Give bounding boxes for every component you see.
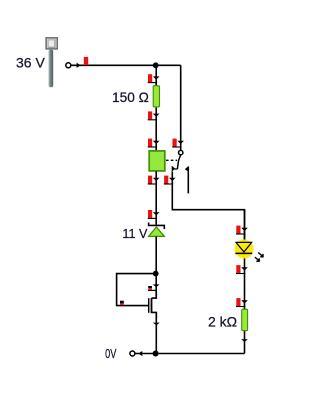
wire: source to bottom rail [155, 312, 157, 353]
resistor R1 150 ohm [153, 86, 159, 107]
resistor R2 2 kOhm [242, 309, 248, 330]
current arrow above zener [148, 210, 160, 219]
relay mechanical link (dashed) [166, 159, 177, 161]
wire bottom rail 0V [135, 353, 244, 355]
current arrow above relay contact [172, 139, 184, 148]
relay coil L1 [149, 151, 165, 171]
relay contact right throw (open) [185, 166, 189, 172]
LED D2 body [235, 242, 252, 253]
wire: zener to gate junction [155, 237, 157, 299]
MOSFET Q1 drain connection [152, 292, 157, 298]
power supply 36V probe cap [46, 38, 57, 49]
relay right throw stub wire [187, 167, 189, 193]
wire top rail [71, 64, 181, 66]
zener diode D1 cathode bar [149, 223, 165, 230]
MOSFET Q1 channel bar [151, 298, 153, 313]
current arrow above R2 [236, 298, 248, 307]
wire gate loop [117, 274, 157, 306]
relay contact lever [177, 155, 180, 169]
svg-text:2 kΩ: 2 kΩ [208, 313, 237, 329]
relay contact left throw (closed) [172, 166, 176, 172]
current arrow on switched wire [164, 176, 176, 185]
node terminal (36V input pin) [66, 63, 71, 68]
MOSFET Q1 gate bar [148, 298, 150, 313]
LED emission arrows [255, 253, 264, 262]
current arrow above relay coil [148, 139, 160, 148]
current arrow below zener (small) [148, 284, 160, 291]
wire: junction to resistor R1 [155, 65, 157, 85]
relay contact pivot [179, 150, 183, 154]
zener diode D1 body 11V [149, 227, 165, 236]
wire: relay coil to zener [155, 171, 157, 225]
MOSFET Q1 source connection [152, 312, 157, 318]
current arrow below R1 [148, 111, 160, 120]
current arrow above LED [236, 226, 248, 235]
node terminal 0V [130, 351, 135, 356]
wire: right branch down to relay contact [180, 65, 182, 150]
current arrow above R1 [148, 74, 160, 83]
wire: switched output down and right [172, 172, 244, 243]
power supply 36V probe stem [49, 50, 54, 88]
LED D2 glow [234, 239, 255, 260]
junction top node [153, 62, 159, 68]
current arrow below relay coil [148, 176, 160, 185]
current bar on gate loop (small) [120, 301, 124, 305]
wire: R1 to relay coil [155, 108, 157, 151]
wire: LED branch vertical [244, 210, 246, 354]
junction bottom node [153, 351, 159, 357]
svg-text:150 Ω: 150 Ω [112, 90, 149, 105]
current arrowhead below R2 [241, 339, 248, 342]
current arrowhead on bottom rail (left flow) [138, 351, 142, 356]
svg-text:36 V: 36 V [16, 54, 45, 70]
junction gate node [153, 271, 159, 277]
current arrow on top rail [77, 57, 89, 68]
current arrowhead below MOSFET [153, 323, 160, 326]
svg-text:11 V: 11 V [122, 227, 148, 241]
current arrow below LED [236, 265, 248, 274]
svg-text:0V: 0V [105, 346, 116, 361]
